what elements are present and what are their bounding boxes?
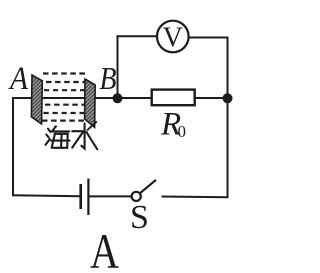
electrode plate B (hatched) xyxy=(85,79,96,127)
seawater dashes row 4 xyxy=(45,104,85,106)
svg-text:0: 0 xyxy=(178,122,187,141)
battery cell: long plate (positive) xyxy=(87,179,89,216)
wire: battery to switch xyxy=(89,195,132,197)
wire: left vertical xyxy=(12,97,14,196)
resistor R0 body xyxy=(152,90,195,106)
svg-text:A: A xyxy=(8,61,29,97)
electrode plate A (hatched) xyxy=(31,75,42,124)
seawater dashes row 3 xyxy=(44,89,85,91)
wire: top right horizontal to voltmeter xyxy=(190,37,229,39)
wire: vertical from corner down to node xyxy=(117,35,119,98)
wire: node to resistor xyxy=(118,97,153,99)
svg-text:A: A xyxy=(90,223,119,273)
label 海水: 水 xyxy=(72,122,97,149)
voltmeter U1 circle xyxy=(157,21,189,53)
node dot left (junction of B electrode, voltmeter, resistor) xyxy=(113,93,123,103)
wire: main horizontal through electrolytic cell A-B xyxy=(12,97,119,99)
switch lever xyxy=(140,180,156,193)
node dot right xyxy=(223,93,233,103)
seawater dashes row 1 xyxy=(43,72,86,74)
seawater dashes row 2 xyxy=(46,81,85,83)
wire: bottom left to battery xyxy=(12,194,81,197)
wire: voltmeter left to corner xyxy=(117,35,157,37)
svg-text:B: B xyxy=(100,60,117,96)
battery cell: short plate (negative) xyxy=(79,184,82,209)
wire: resistor to right node xyxy=(195,97,228,99)
switch S pivot circle xyxy=(132,192,141,201)
wire: switch to bottom-right corner xyxy=(162,196,229,199)
wire: right vertical xyxy=(227,38,229,199)
svg-text:S: S xyxy=(130,199,149,236)
seawater dashes row 6 xyxy=(42,119,85,121)
seawater dashes row 5 xyxy=(44,112,86,114)
svg-text:V: V xyxy=(163,23,183,54)
label 海水 (seawater) drawn as strokes: 海 xyxy=(46,126,70,148)
